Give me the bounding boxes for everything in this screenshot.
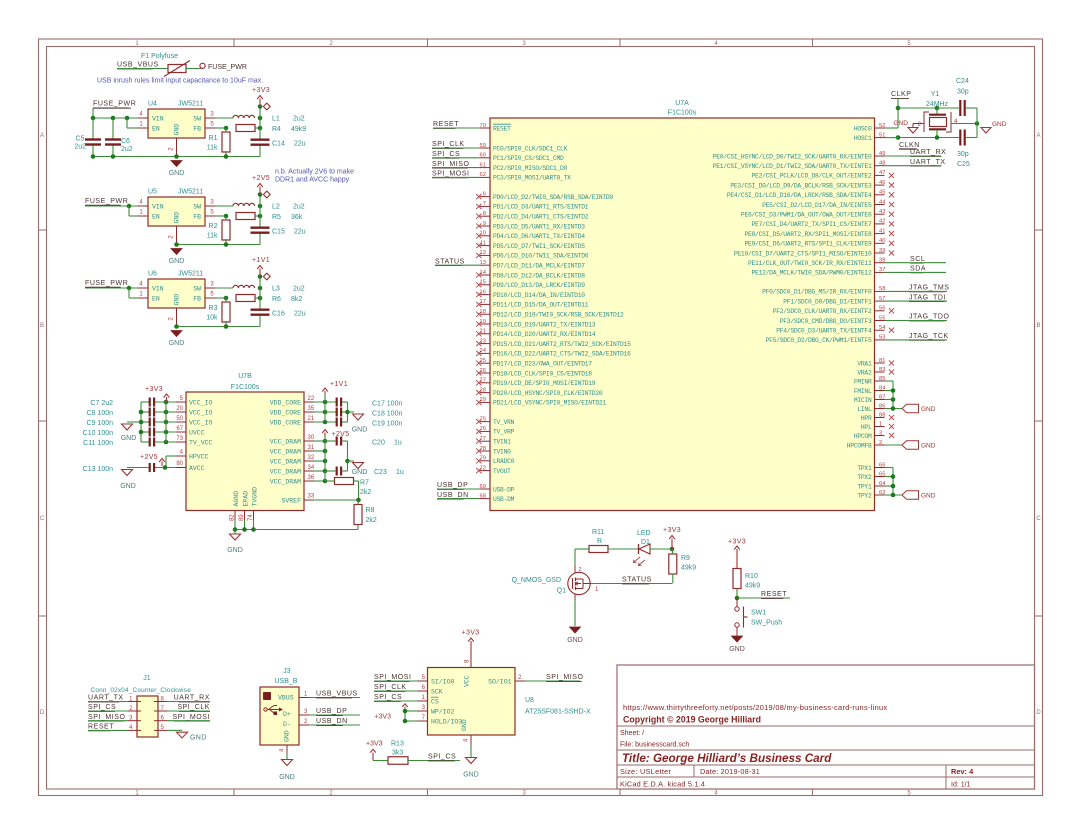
svg-text:2u2: 2u2 <box>293 286 305 293</box>
svg-text:85: 85 <box>879 376 885 382</box>
svg-text:PE5/CSI_D2/LCD_D17/DA_IN/EINTE: PE5/CSI_D2/LCD_D17/DA_IN/EINTE5 <box>762 202 872 209</box>
svg-text:PF3/SDC0_CMD/DBG_DO/EINTF3: PF3/SDC0_CMD/DBG_DO/EINTF3 <box>780 318 872 325</box>
svg-text:D: D <box>40 710 45 716</box>
svg-text:VDD_CORE: VDD_CORE <box>270 419 301 426</box>
svg-text:33: 33 <box>308 494 315 500</box>
svg-text:https://www.thirtythreeforty.n: https://www.thirtythreeforty.net/posts/2… <box>623 703 887 712</box>
svg-text:C5: C5 <box>76 136 85 143</box>
svg-text:74: 74 <box>248 514 254 521</box>
svg-text:TVIN0: TVIN0 <box>493 448 511 455</box>
svg-text:L1: L1 <box>272 116 280 123</box>
svg-text:SW_Push: SW_Push <box>751 620 782 627</box>
svg-text:2: 2 <box>879 440 882 446</box>
svg-text:PD4/LCD_D6/UART1_TX/EINTD4: PD4/LCD_D6/UART1_TX/EINTD4 <box>493 233 585 240</box>
svg-text:VCC_DRAM: VCC_DRAM <box>270 468 301 475</box>
svg-text:51: 51 <box>879 132 885 138</box>
svg-text:+1V1: +1V1 <box>330 381 348 388</box>
svg-text:11k: 11k <box>207 233 218 240</box>
svg-text:66: 66 <box>879 462 885 468</box>
svg-text:PD11/LCD_D15/DA_OUT/EINTD11: PD11/LCD_D15/DA_OUT/EINTD11 <box>493 302 589 309</box>
svg-text:SCL: SCL <box>910 256 925 263</box>
svg-text:48: 48 <box>879 161 885 167</box>
svg-text:PD7/LCD_D11/DA_MCLK/EINTD7: PD7/LCD_D11/DA_MCLK/EINTD7 <box>493 263 585 270</box>
svg-text:9: 9 <box>483 221 486 227</box>
svg-text:FUSE_PWR: FUSE_PWR <box>208 64 247 71</box>
svg-text:R2: R2 <box>209 223 218 230</box>
svg-text:67: 67 <box>176 426 183 432</box>
svg-text:3k3: 3k3 <box>392 750 403 757</box>
svg-text:PC3/SPI0_MOSI/UART0_TX: PC3/SPI0_MOSI/UART0_TX <box>493 175 571 182</box>
svg-text:U4: U4 <box>148 101 157 108</box>
svg-text:+3V3: +3V3 <box>728 539 746 546</box>
svg-text:VDD_CORE: VDD_CORE <box>270 399 301 406</box>
svg-text:GND: GND <box>921 406 936 413</box>
svg-text:SDA: SDA <box>910 266 926 273</box>
svg-text:SPI_MOSI: SPI_MOSI <box>173 714 210 721</box>
svg-text:Q1: Q1 <box>557 588 566 595</box>
svg-text:Copyright © 2019 George Hillia: Copyright © 2019 George Hilliard <box>623 715 761 725</box>
svg-text:HPVCC: HPVCC <box>189 453 209 460</box>
svg-text:24MHz: 24MHz <box>926 101 949 108</box>
svg-text:GND: GND <box>992 121 1007 128</box>
svg-text:CLKP: CLKP <box>891 91 912 98</box>
svg-text:RESET: RESET <box>88 724 114 731</box>
svg-text:1u: 1u <box>394 440 402 447</box>
svg-text:30p: 30p <box>957 151 969 158</box>
svg-text:SO/IO1: SO/IO1 <box>488 678 512 685</box>
svg-text:PF5/SDC0_D2/DBG_CK/PWM1/EINTF5: PF5/SDC0_D2/DBG_CK/PWM1/EINTF5 <box>766 337 872 344</box>
svg-text:+3V3: +3V3 <box>145 386 163 393</box>
svg-text:34: 34 <box>308 465 315 471</box>
svg-text:UART_TX: UART_TX <box>88 695 124 702</box>
svg-text:SPI_MISO: SPI_MISO <box>546 674 583 681</box>
svg-text:GND: GND <box>121 435 137 442</box>
svg-text:D+: D+ <box>283 711 291 718</box>
svg-text:C25: C25 <box>957 161 970 168</box>
svg-text:2u2: 2u2 <box>293 204 305 211</box>
svg-text:C13 100n: C13 100n <box>83 466 113 473</box>
svg-text:PD13/LCD_D19/UART2_TX/EINTD13: PD13/LCD_D19/UART2_TX/EINTD13 <box>493 321 596 328</box>
svg-text:22u: 22u <box>294 141 306 148</box>
svg-text:SVREF: SVREF <box>281 497 301 504</box>
svg-text:A: A <box>40 133 44 139</box>
svg-text:11k: 11k <box>207 145 218 152</box>
svg-text:UART_RX: UART_RX <box>910 149 946 156</box>
svg-text:PD17/LCD_D23/OWA_OUT/EINTD17: PD17/LCD_D23/OWA_OUT/EINTD17 <box>493 361 592 368</box>
svg-text:SW: SW <box>193 116 201 123</box>
svg-text:FMINR: FMINR <box>854 378 872 385</box>
svg-text:JTAG_TCK: JTAG_TCK <box>909 333 949 340</box>
svg-text:2k2: 2k2 <box>360 489 371 496</box>
svg-text:R8: R8 <box>366 507 375 514</box>
svg-text:LRADC0: LRADC0 <box>493 458 515 465</box>
svg-text:VCC_IO: VCC_IO <box>189 409 213 416</box>
svg-text:PE10/CSI_D7/UART2_CTS/SPI1_MIS: PE10/CSI_D7/UART2_CTS/SPI1_MISO/EINTE10 <box>734 250 872 257</box>
svg-text:SPI_CLK: SPI_CLK <box>177 704 210 711</box>
svg-text:File: businesscard.sch: File: businesscard.sch <box>620 742 689 749</box>
svg-text:PD5/LCD_D7/TWI1_SCK/EINTD5: PD5/LCD_D7/TWI1_SCK/EINTD5 <box>493 243 585 250</box>
svg-text:36k: 36k <box>291 214 303 221</box>
svg-text:VRA1: VRA1 <box>857 360 872 367</box>
svg-text:PE3/CSI_D0/LCD_D9/DA_BCLK/RSB_: PE3/CSI_D0/LCD_D9/DA_BCLK/RSB_SCK/EINTE3 <box>730 182 872 189</box>
svg-text:PD20/LCD_HSYNC/SPI0_CLK/EINTD2: PD20/LCD_HSYNC/SPI0_CLK/EINTD20 <box>493 390 603 397</box>
svg-text:13: 13 <box>480 260 486 266</box>
svg-text:VCC_DRAM: VCC_DRAM <box>270 458 301 465</box>
svg-text:SPI_CS: SPI_CS <box>428 754 456 761</box>
svg-text:GND: GND <box>174 124 181 136</box>
svg-text:HPL: HPL <box>861 424 872 431</box>
svg-text:39: 39 <box>879 248 885 254</box>
svg-text:VCC_DRAM: VCC_DRAM <box>270 478 301 485</box>
svg-text:PD16/LCD_D22/UART2_CTS/TWI2_SD: PD16/LCD_D22/UART2_CTS/TWI2_SDA/EINTD16 <box>493 351 631 358</box>
svg-text:RESET: RESET <box>493 125 511 132</box>
svg-text:FUSE_PWR: FUSE_PWR <box>93 101 136 108</box>
svg-text:PD12/LCD_D18/TWI0_SCK/RSB_SCK/: PD12/LCD_D18/TWI0_SCK/RSB_SCK/EINTD12 <box>493 312 624 319</box>
svg-text:68: 68 <box>480 493 486 499</box>
svg-text:VCC_DRAM: VCC_DRAM <box>270 448 301 455</box>
svg-text:R4: R4 <box>272 126 281 133</box>
svg-text:USB_VBUS: USB_VBUS <box>117 62 159 69</box>
svg-text:UART_TX: UART_TX <box>910 159 946 166</box>
svg-text:EN: EN <box>152 296 160 303</box>
svg-text:GND: GND <box>567 637 583 644</box>
svg-text:Y1: Y1 <box>931 91 940 98</box>
svg-text:USB inrush rules limit input c: USB inrush rules limit input capacitance… <box>97 78 263 85</box>
svg-text:SCK: SCK <box>431 688 443 695</box>
svg-text:PD0/LCD_D2/TWI0_SDA/RSB_SDA/EI: PD0/LCD_D2/TWI0_SDA/RSB_SDA/EINTD0 <box>493 194 613 201</box>
svg-text:PE1/CSI_VSYNC/LCD_D1/TWI2_SDA/: PE1/CSI_VSYNC/LCD_D1/TWI2_SDA/UART0_TX/E… <box>713 163 872 170</box>
svg-text:RESET: RESET <box>433 121 459 128</box>
svg-text:Conn_02x04_Counter_Clockwise: Conn_02x04_Counter_Clockwise <box>91 687 192 694</box>
svg-text:FMINL: FMINL <box>854 388 872 395</box>
svg-text:HPCOMFB: HPCOMFB <box>847 442 872 449</box>
svg-text:50: 50 <box>176 416 183 422</box>
svg-text:36: 36 <box>308 475 315 481</box>
svg-text:HOLD/IO3: HOLD/IO3 <box>431 718 462 725</box>
svg-text:57: 57 <box>879 296 885 302</box>
svg-text:GND: GND <box>284 730 291 742</box>
svg-text:STATUS: STATUS <box>622 577 652 584</box>
svg-text:C15: C15 <box>272 229 285 236</box>
svg-text:U7A: U7A <box>675 100 689 107</box>
svg-text:TVIN1: TVIN1 <box>493 439 511 446</box>
svg-text:SW1: SW1 <box>751 610 766 617</box>
svg-text:59: 59 <box>480 143 486 149</box>
svg-text:VRA2: VRA2 <box>857 369 872 376</box>
svg-text:45: 45 <box>879 190 885 196</box>
svg-text:AVCC: AVCC <box>189 465 205 472</box>
svg-text:+2V5: +2V5 <box>140 454 158 461</box>
svg-text:USB_DN: USB_DN <box>316 718 348 725</box>
svg-text:86: 86 <box>879 403 885 409</box>
svg-text:C6: C6 <box>121 138 130 145</box>
svg-text:PD1/LCD_D3/UART1_RTS/EINTD1: PD1/LCD_D3/UART1_RTS/EINTD1 <box>493 204 589 211</box>
svg-text:EPAD: EPAD <box>242 491 249 507</box>
svg-text:HPR: HPR <box>861 415 872 422</box>
svg-text:STATUS: STATUS <box>435 258 465 265</box>
svg-text:GND: GND <box>921 442 936 449</box>
svg-text:MICIN: MICIN <box>854 397 872 404</box>
svg-text:49k9: 49k9 <box>291 126 306 133</box>
svg-text:PD2/LCD_D4/UART1_CTS/EINTD2: PD2/LCD_D4/UART1_CTS/EINTD2 <box>493 214 589 221</box>
svg-text:40: 40 <box>879 238 885 244</box>
svg-text:TV_VRP: TV_VRP <box>493 429 515 436</box>
svg-text:JW5211: JW5211 <box>178 101 203 108</box>
svg-text:Title: George Hilliard’s Busin: Title: George Hilliard’s Business Card <box>622 752 832 765</box>
svg-text:35: 35 <box>308 406 315 412</box>
svg-text:41: 41 <box>879 228 885 234</box>
svg-text:PC1/SPI0_CS/SDC1_CMD: PC1/SPI0_CS/SDC1_CMD <box>493 155 564 162</box>
svg-text:81: 81 <box>879 358 885 364</box>
svg-text:U8: U8 <box>525 697 534 704</box>
svg-text:GND: GND <box>169 340 185 347</box>
svg-text:UVCC: UVCC <box>189 429 205 436</box>
svg-text:PE7/CSI_D4/UART2_TX/SPI1_CS/EI: PE7/CSI_D4/UART2_TX/SPI1_CS/EINTE7 <box>752 221 872 228</box>
svg-text:USB_DN: USB_DN <box>437 492 469 499</box>
svg-text:VDD_CORE: VDD_CORE <box>270 409 301 416</box>
svg-text:JTAG_TMS: JTAG_TMS <box>909 285 949 292</box>
svg-text:C14: C14 <box>272 141 285 148</box>
svg-text:GND: GND <box>227 547 243 554</box>
svg-text:DDR1 and AVCC happy: DDR1 and AVCC happy <box>275 177 350 184</box>
svg-text:GND: GND <box>463 772 479 779</box>
svg-text:20: 20 <box>176 406 183 412</box>
svg-text:87: 87 <box>879 394 885 400</box>
svg-text:44: 44 <box>879 199 886 205</box>
svg-text:PC2/SPI0_MISO/SDC1_D0: PC2/SPI0_MISO/SDC1_D0 <box>493 165 568 172</box>
svg-text:80: 80 <box>176 461 183 467</box>
svg-text:8k2: 8k2 <box>291 296 302 303</box>
svg-text:GND: GND <box>352 427 368 434</box>
svg-text:22u: 22u <box>294 229 306 236</box>
svg-text:73: 73 <box>176 436 183 442</box>
svg-text:C18 100n: C18 100n <box>372 411 402 418</box>
svg-text:LINL: LINL <box>857 406 872 413</box>
svg-text:88: 88 <box>879 412 885 418</box>
svg-text:SPI_MISO: SPI_MISO <box>432 161 469 168</box>
svg-text:USB_DP: USB_DP <box>437 482 468 489</box>
svg-text:22: 22 <box>308 396 315 402</box>
svg-text:47: 47 <box>879 170 885 176</box>
svg-text:Rev: 4: Rev: 4 <box>951 767 974 776</box>
svg-text:+1V1: +1V1 <box>252 257 270 264</box>
svg-text:2u2: 2u2 <box>74 144 86 151</box>
svg-text:2u2: 2u2 <box>121 146 133 153</box>
svg-text:PD19/LCD_DE/SPI0_MOSI/EINTD19: PD19/LCD_DE/SPI0_MOSI/EINTD19 <box>493 380 596 387</box>
svg-text:2k2: 2k2 <box>366 517 377 524</box>
svg-text:+3V3: +3V3 <box>462 630 480 637</box>
svg-text:TPX1: TPX1 <box>857 465 872 472</box>
svg-text:1: 1 <box>879 421 882 427</box>
svg-text:F1C100s: F1C100s <box>668 110 697 117</box>
svg-text:6: 6 <box>483 191 486 197</box>
svg-text:1u: 1u <box>396 469 404 476</box>
svg-text:PD6/LCD_D10/TWI1_SDA/EINTD6: PD6/LCD_D10/TWI1_SDA/EINTD6 <box>493 253 589 260</box>
svg-text:+3V3: +3V3 <box>366 741 383 748</box>
svg-text:38: 38 <box>879 258 885 264</box>
svg-text:52: 52 <box>879 123 885 129</box>
svg-text:31: 31 <box>308 445 315 451</box>
svg-text:B: B <box>40 323 44 329</box>
svg-text:PD21/LCD_VSYNC/SPI0_MISO/EINTD: PD21/LCD_VSYNC/SPI0_MISO/EINTD21 <box>493 400 606 407</box>
svg-text:62: 62 <box>480 172 486 178</box>
svg-text:SPI_MISO: SPI_MISO <box>88 714 125 721</box>
svg-text:R9: R9 <box>681 555 690 562</box>
svg-text:58: 58 <box>879 286 885 292</box>
svg-text:GND: GND <box>174 212 181 224</box>
svg-text:TPY2: TPY2 <box>857 492 872 499</box>
svg-text:GND: GND <box>894 120 909 127</box>
svg-text:F1 Polyfuse: F1 Polyfuse <box>141 53 178 60</box>
svg-text:56: 56 <box>879 306 885 312</box>
svg-text:PD9/LCD_D13/DA_LRCK/EINTD9: PD9/LCD_D13/DA_LRCK/EINTD9 <box>493 282 585 289</box>
svg-text:C11 100n: C11 100n <box>83 440 113 447</box>
svg-text:Sheet: /: Sheet: / <box>620 730 644 737</box>
svg-text:KiCad E.D.A. kicad 5.1.4: KiCad E.D.A. kicad 5.1.4 <box>620 780 705 789</box>
svg-text:GND: GND <box>921 492 936 499</box>
svg-text:GND: GND <box>169 258 185 265</box>
svg-text:JW5211: JW5211 <box>178 189 203 196</box>
svg-text:TPX2: TPX2 <box>857 474 872 481</box>
svg-text:SW: SW <box>193 204 201 211</box>
svg-text:USB_DP: USB_DP <box>316 708 347 715</box>
svg-text:J1: J1 <box>143 675 151 682</box>
svg-text:3: 3 <box>879 430 882 436</box>
svg-text:A: A <box>1036 133 1040 139</box>
svg-text:10k: 10k <box>206 315 218 322</box>
svg-text:PF2/SDC0_CLK/UART0_RX/EINTF2: PF2/SDC0_CLK/UART0_RX/EINTF2 <box>773 308 872 315</box>
svg-text:69: 69 <box>480 484 486 490</box>
svg-text:46: 46 <box>879 180 885 186</box>
svg-text:Size: USLetter: Size: USLetter <box>620 767 672 776</box>
svg-text:SPI_MOSI: SPI_MOSI <box>432 171 469 178</box>
svg-text:JW5211: JW5211 <box>178 271 203 278</box>
svg-text:C19 100n: C19 100n <box>372 421 402 428</box>
svg-text:VIN: VIN <box>152 286 164 293</box>
svg-text:TPY1: TPY1 <box>857 483 872 490</box>
svg-text:C7 2u2: C7 2u2 <box>90 400 113 407</box>
svg-text:C23: C23 <box>374 469 387 476</box>
svg-text:F1C100s: F1C100s <box>231 384 260 391</box>
svg-text:USB_B: USB_B <box>275 678 298 685</box>
svg-text:PE4/CSI_D1/LCD_D16/DA_LRCK/RSB: PE4/CSI_D1/LCD_D16/DA_LRCK/RSB_SDA/EINTE… <box>727 192 872 199</box>
svg-text:TVGND: TVGND <box>251 487 258 507</box>
svg-text:42: 42 <box>879 219 885 225</box>
svg-text:GND: GND <box>279 774 295 781</box>
svg-text:R11: R11 <box>592 529 604 536</box>
svg-text:R13: R13 <box>391 741 404 748</box>
svg-text:PD8/LCD_D12/DA_BCLK/EINTD8: PD8/LCD_D12/DA_BCLK/EINTD8 <box>493 272 585 279</box>
svg-text:R: R <box>597 538 602 545</box>
svg-text:FUSE_PWR: FUSE_PWR <box>85 280 128 287</box>
svg-text:SW: SW <box>193 286 201 293</box>
svg-text:21: 21 <box>308 416 315 422</box>
svg-text:SPI_CS: SPI_CS <box>432 151 460 158</box>
svg-text:FUSE_PWR: FUSE_PWR <box>85 198 128 205</box>
svg-text:60: 60 <box>480 153 486 159</box>
svg-text:SPI_CLK: SPI_CLK <box>374 684 407 691</box>
svg-text:Date: 2019-08-31: Date: 2019-08-31 <box>700 767 760 776</box>
svg-text:FB: FB <box>193 296 201 303</box>
svg-text:VBUS: VBUS <box>278 695 294 702</box>
svg-text:n.b. Actually 2V6 to make: n.b. Actually 2V6 to make <box>275 169 354 176</box>
svg-text:EN: EN <box>152 126 160 133</box>
svg-text:AGND: AGND <box>233 491 240 507</box>
svg-text:PE11/CLK_OUT/TWI0_SCK/IR_RX/EI: PE11/CLK_OUT/TWI0_SCK/IR_RX/EINTE11 <box>748 260 872 267</box>
svg-text:R10: R10 <box>745 573 758 580</box>
svg-text:WP/IO2: WP/IO2 <box>431 708 455 715</box>
svg-text:RESET: RESET <box>761 591 787 598</box>
svg-text:70: 70 <box>480 123 486 129</box>
svg-text:8: 8 <box>483 211 486 217</box>
svg-text:EN: EN <box>152 214 160 221</box>
svg-text:C16: C16 <box>272 311 285 318</box>
svg-text:SPI_MOSI: SPI_MOSI <box>374 674 411 681</box>
svg-text:USB_VBUS: USB_VBUS <box>316 691 358 698</box>
svg-text:PE6/CSI_D3/PWM1/DA_OUT/OWA_OUT: PE6/CSI_D3/PWM1/DA_OUT/OWA_OUT/EINTE6 <box>741 212 872 219</box>
svg-text:VCC_IO: VCC_IO <box>189 419 213 426</box>
svg-text:PE2/CSI_PCLK/LCD_D8/CLK_OUT/EI: PE2/CSI_PCLK/LCD_D8/CLK_OUT/EINTE2 <box>752 173 872 180</box>
svg-text:LED: LED <box>637 530 651 537</box>
svg-text:89: 89 <box>239 514 245 521</box>
svg-text:SI/IO0: SI/IO0 <box>431 678 455 685</box>
svg-text:USB-DM: USB-DM <box>493 496 515 503</box>
svg-text:PE12/DA_MCLK/TWI0_SDA/PWM0/EIN: PE12/DA_MCLK/TWI0_SDA/PWM0/EINTE12 <box>752 270 872 277</box>
svg-text:2: 2 <box>579 567 582 573</box>
svg-text:2u2: 2u2 <box>293 116 305 123</box>
svg-text:PC0/SPI0_CLK/SDC1_CLK: PC0/SPI0_CLK/SDC1_CLK <box>493 145 568 152</box>
svg-text:L2: L2 <box>272 204 280 211</box>
svg-text:CLKN: CLKN <box>899 142 920 149</box>
svg-text:PE9/CSI_D6/UART2_RTS/SPI1_CLK/: PE9/CSI_D6/UART2_RTS/SPI1_CLK/EINTE9 <box>744 241 872 248</box>
svg-text:R6: R6 <box>272 296 281 303</box>
svg-text:C9 100n: C9 100n <box>87 420 114 427</box>
svg-text:65: 65 <box>879 471 885 477</box>
svg-text:GND: GND <box>120 483 136 490</box>
svg-text:82: 82 <box>230 514 236 521</box>
svg-text:30: 30 <box>308 435 315 441</box>
svg-text:PF4/SDC0_D3/UART0_TX/EINTF4: PF4/SDC0_D3/UART0_TX/EINTF4 <box>776 328 872 335</box>
svg-text:R3: R3 <box>209 305 218 312</box>
svg-text:R1: R1 <box>209 135 218 142</box>
svg-text:B: B <box>1036 323 1040 329</box>
svg-text:49: 49 <box>879 151 885 157</box>
svg-text:VCC_IO: VCC_IO <box>189 399 213 406</box>
svg-text:GND: GND <box>169 170 185 177</box>
svg-text:Id: 1/1: Id: 1/1 <box>951 782 971 789</box>
svg-text:D: D <box>1036 710 1041 716</box>
svg-text:HOSC1: HOSC1 <box>854 135 872 142</box>
svg-text:CS: CS <box>431 698 439 705</box>
svg-text:C24: C24 <box>956 78 969 85</box>
svg-text:C17 100n: C17 100n <box>372 401 402 408</box>
svg-text:PD18/LCD_CLK/SPI0_CS/EINTD18: PD18/LCD_CLK/SPI0_CS/EINTD18 <box>493 370 592 377</box>
svg-text:USB-DP: USB-DP <box>493 486 515 493</box>
svg-text:32: 32 <box>308 455 315 461</box>
svg-text:7: 7 <box>483 201 486 207</box>
svg-text:GND: GND <box>729 646 745 653</box>
svg-text:30p: 30p <box>957 89 969 96</box>
svg-text:+3V3: +3V3 <box>374 714 391 721</box>
svg-text:AT25SF081-SSHD-X: AT25SF081-SSHD-X <box>525 709 591 716</box>
svg-text:+3V3: +3V3 <box>663 527 681 534</box>
svg-text:HOSC0: HOSC0 <box>854 125 872 132</box>
svg-text:C: C <box>40 516 45 522</box>
svg-text:PE0/CSI_HSYNC/LCD_D0/TWI2_SCK/: PE0/CSI_HSYNC/LCD_D0/TWI2_SCK/UART0_RX/E… <box>713 153 872 160</box>
svg-text:J3: J3 <box>283 668 291 675</box>
svg-text:+3V3: +3V3 <box>252 87 270 94</box>
svg-text:VIN: VIN <box>152 116 164 123</box>
